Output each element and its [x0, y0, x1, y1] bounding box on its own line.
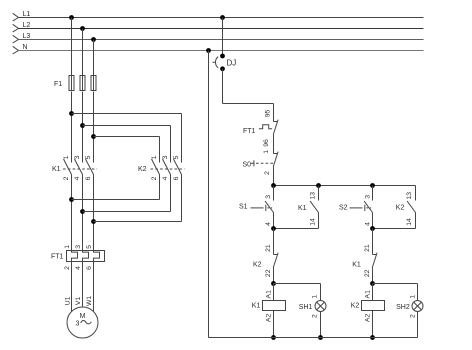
svg-text:K2: K2: [138, 166, 147, 173]
svg-text:1: 1: [263, 150, 270, 154]
node bottom SH1: [318, 335, 323, 340]
node crossover L3: [91, 134, 96, 139]
wire FT1 to motor V1: [82, 262, 84, 308]
label 4 (S1): [265, 222, 272, 226]
wire node to K1 coil: [273, 284, 275, 301]
wire K2:6 to merge W: [94, 175, 182, 222]
contactor K2 main contact 3-4: [162, 155, 171, 180]
label FT1 aux: [243, 128, 256, 135]
svg-text:1: 1: [64, 245, 71, 249]
pushbutton S0 NC: [251, 152, 278, 167]
wire K1 coil to bottom rail: [273, 311, 275, 338]
svg-text:K2: K2: [253, 262, 262, 269]
svg-text:K1: K1: [352, 262, 361, 269]
label A1 (K1 coil): [266, 290, 273, 299]
node merge S1: [271, 226, 276, 231]
svg-text:1: 1: [312, 295, 319, 299]
label 13 (K1): [310, 192, 317, 200]
svg-text:L3: L3: [23, 33, 31, 40]
node bus S1: [271, 183, 276, 188]
svg-text:A1: A1: [266, 290, 273, 299]
neutral return rail: [208, 51, 210, 338]
svg-text:N: N: [23, 44, 28, 51]
wire K1:2 down: [71, 175, 73, 251]
FT1 heater pole 3-4: [75, 245, 89, 270]
label 3 (S2): [364, 195, 371, 199]
wire K2:4 to merge V: [83, 175, 171, 212]
wire K1:4 down: [82, 175, 84, 251]
label L2: [23, 22, 31, 29]
coil K2: [362, 301, 385, 311]
wire fuse1 to K1 pole1: [71, 92, 73, 163]
power rail N: [13, 46, 424, 54]
junction L1 to K1 feeder: [69, 15, 74, 20]
svg-text:3: 3: [74, 155, 81, 159]
thermal relay FT1 box: [67, 251, 105, 262]
wire K2 coil to bottom rail: [372, 311, 374, 338]
wire S0 to bus: [273, 167, 275, 186]
wire SH2 to bottom rail: [417, 312, 419, 338]
contactor K1 main contact 3-4: [74, 155, 83, 180]
junction L2 to K1 feeder: [80, 26, 85, 31]
svg-text:5: 5: [85, 155, 92, 159]
label 22 (K1 NC): [364, 269, 371, 277]
svg-text:A2: A2: [266, 314, 273, 323]
svg-text:DJ: DJ: [227, 59, 237, 68]
svg-text:13: 13: [406, 192, 413, 200]
FT1 heater pole 5-6: [86, 245, 100, 270]
lamp SH1: [315, 301, 326, 312]
node crossover L2: [80, 123, 85, 128]
junction N to control rail: [206, 48, 211, 53]
wire node to SH1: [274, 284, 321, 301]
label K2 aux: [396, 204, 405, 211]
label L1: [23, 11, 31, 18]
svg-text:6: 6: [86, 266, 93, 270]
wire FT1 to motor U1: [71, 262, 73, 312]
fuse F1 pole 2: [80, 76, 85, 91]
label SH1: [299, 304, 313, 311]
label K1: [52, 166, 61, 173]
contactor K2 interlock NC contact: [273, 253, 278, 268]
fuse F1 pole 3: [91, 76, 96, 91]
label SH2: [396, 304, 410, 311]
power rail L1: [13, 13, 424, 21]
control bus: [274, 185, 416, 187]
label K1 aux: [298, 205, 307, 212]
label A2 (K2 coil): [365, 314, 372, 323]
label S2: [339, 204, 348, 211]
contactor K1 main contact 1-2: [63, 155, 72, 180]
svg-text:4: 4: [162, 176, 169, 180]
svg-text:FT1: FT1: [243, 128, 256, 135]
svg-text:95: 95: [264, 110, 271, 118]
power rail L3: [13, 35, 424, 43]
label A2 (K1 coil): [266, 314, 273, 323]
wire crossover L3 to K2 pole1: [94, 137, 160, 163]
contactor K2 main contact 5-6: [173, 155, 182, 180]
svg-text:S2: S2: [339, 204, 348, 211]
contactor K1 aux NO contact: [310, 186, 318, 229]
wire merge S1/K1: [274, 228, 319, 230]
wire L2 to fuse: [82, 29, 84, 76]
svg-text:4: 4: [74, 176, 81, 180]
svg-text:22: 22: [265, 269, 272, 277]
svg-text:1: 1: [151, 155, 158, 159]
svg-text:22: 22: [364, 269, 371, 277]
contactor K2 aux NO contact: [407, 186, 415, 229]
svg-text:A1: A1: [365, 290, 372, 299]
svg-text:4: 4: [75, 266, 82, 270]
node bottom K1 coil: [271, 335, 276, 340]
wire merge S2/K2: [373, 228, 416, 230]
svg-text:F1: F1: [54, 81, 62, 88]
svg-text:2: 2: [410, 314, 417, 318]
junction L1 to control drop: [220, 15, 225, 20]
label W1: [86, 296, 93, 306]
svg-text:SH2: SH2: [396, 304, 410, 311]
label K1 coil: [252, 303, 261, 310]
label 2 (SH2): [410, 314, 417, 318]
connector DJ lower terminal: [220, 66, 225, 71]
contactor K1 main contact 5-6: [85, 155, 94, 180]
svg-text:4: 4: [265, 222, 272, 226]
wire node to SH2: [373, 284, 418, 301]
svg-text:2: 2: [312, 314, 319, 318]
svg-text:6: 6: [173, 176, 180, 180]
label DJ: [227, 59, 237, 68]
svg-text:S1: S1: [239, 204, 248, 211]
label S1: [239, 204, 248, 211]
svg-text:5: 5: [173, 155, 180, 159]
label V1: [75, 297, 82, 306]
wire DJ to FT1 aux: [223, 69, 274, 122]
svg-text:2: 2: [151, 176, 158, 180]
svg-text:V1: V1: [75, 297, 82, 306]
label 1 (SH2): [410, 295, 417, 299]
wire FT1 to motor W1: [93, 262, 95, 312]
svg-text:14: 14: [310, 218, 317, 226]
node K2 coil row: [370, 281, 375, 286]
svg-text:6: 6: [85, 176, 92, 180]
svg-text:13: 13: [310, 192, 317, 200]
svg-text:K1: K1: [52, 166, 61, 173]
svg-text:M: M: [80, 313, 86, 320]
label 1 (S0): [263, 150, 270, 154]
label 14 (K1): [310, 218, 317, 226]
svg-text:S0: S0: [243, 161, 252, 168]
label 2 (S0): [264, 171, 271, 175]
node K1 coil row: [271, 281, 276, 286]
label K2 coil: [351, 303, 360, 310]
svg-text:W1: W1: [86, 296, 93, 306]
FT1 aux NC contact: [259, 120, 278, 135]
svg-text:L2: L2: [23, 22, 31, 29]
svg-text:21: 21: [364, 244, 371, 252]
svg-text:K1: K1: [298, 205, 307, 212]
label 22 (K2 NC): [265, 269, 272, 277]
wire K2:2 to merge U: [72, 175, 160, 200]
svg-text:K1: K1: [252, 303, 261, 310]
svg-text:1: 1: [410, 295, 417, 299]
wire L1 drop to DJ: [222, 18, 224, 55]
wire L3 to fuse: [93, 40, 95, 76]
wire node to K2 coil: [372, 284, 374, 301]
node merge phase V: [80, 209, 85, 214]
svg-text:2: 2: [63, 176, 70, 180]
wire S1 to K2 interlock: [273, 229, 275, 255]
lamp SH2: [412, 301, 423, 312]
svg-text:2: 2: [264, 171, 271, 175]
svg-text:U1: U1: [65, 296, 72, 305]
svg-text:3: 3: [75, 245, 82, 249]
svg-text:14: 14: [406, 218, 413, 226]
svg-text:K2: K2: [396, 204, 405, 211]
label 13 (K2): [406, 192, 413, 200]
node bus K1 aux: [316, 183, 321, 188]
wire crossover L2 to K2 pole2: [83, 126, 171, 163]
svg-text:2: 2: [64, 266, 71, 270]
svg-text:K2: K2: [351, 303, 360, 310]
connector DJ upper terminal: [220, 54, 225, 59]
svg-text:1: 1: [63, 155, 70, 159]
label 95: [264, 110, 271, 118]
wire crossover L1 to K2 pole3: [72, 114, 182, 163]
label 2 (SH1): [312, 314, 319, 318]
power rail L2: [13, 24, 424, 32]
node merge phase U: [69, 197, 74, 202]
contactor K1 interlock NC contact: [372, 253, 377, 268]
label 1 (SH1): [312, 295, 319, 299]
node bottom K2 coil: [370, 335, 375, 340]
wire K1 interlock to node: [372, 268, 374, 284]
label 21 (K2 NC): [265, 244, 272, 252]
wire S2 to K1 interlock: [372, 229, 374, 255]
wire K2 interlock to node: [273, 268, 275, 284]
motor M 3~: [67, 307, 98, 338]
svg-text:21: 21: [265, 244, 272, 252]
coil K1: [263, 301, 286, 311]
label 21 (K1 NC): [364, 244, 371, 252]
wire fuse3 to K1 pole3: [93, 92, 95, 163]
junction L3 to K1 feeder: [91, 37, 96, 42]
pushbutton S2 NO: [350, 186, 373, 229]
svg-text:3: 3: [364, 195, 371, 199]
FT1 heater pole 1-2: [64, 245, 78, 270]
label U1: [65, 296, 72, 305]
wire K1:6 down: [93, 175, 95, 251]
label K1 interlock: [352, 262, 361, 269]
svg-text:L1: L1: [23, 11, 31, 18]
label K2 interlock: [253, 262, 262, 269]
label L3: [23, 33, 31, 40]
node merge phase W: [91, 219, 96, 224]
wire FT1 aux to S0: [273, 135, 275, 154]
label N: [23, 44, 28, 51]
label K2: [138, 166, 147, 173]
node bus S2: [370, 183, 375, 188]
svg-text:96: 96: [263, 139, 270, 147]
wire fuse2 to K1 pole2: [82, 92, 84, 163]
node crossover L1: [69, 111, 74, 116]
contactor K2 main contact 1-2: [151, 155, 160, 180]
wire L1 to fuse: [71, 18, 73, 76]
fuse F1 pole 1: [69, 76, 74, 91]
bottom control rail: [209, 337, 418, 339]
K2 linkage (dashed): [151, 168, 185, 170]
label 14 (K2): [406, 218, 413, 226]
label F1: [54, 81, 62, 88]
svg-text:5: 5: [86, 245, 93, 249]
svg-text:SH1: SH1: [299, 304, 313, 311]
K1 linkage (dashed): [63, 168, 97, 170]
svg-text:3: 3: [76, 321, 80, 328]
pushbutton S1 NO: [251, 186, 274, 229]
svg-text:3: 3: [265, 195, 272, 199]
label 3 (S1): [265, 195, 272, 199]
label S0: [243, 161, 252, 168]
label A1 (K2 coil): [365, 290, 372, 299]
label FT1: [51, 254, 64, 261]
wire SH1 to bottom rail: [320, 312, 322, 338]
node merge S2: [370, 226, 375, 231]
svg-text:FT1: FT1: [51, 254, 64, 261]
svg-text:3: 3: [162, 155, 169, 159]
connector DJ socket arc: [213, 57, 219, 68]
label 96: [263, 139, 270, 147]
svg-text:A2: A2: [365, 314, 372, 323]
svg-text:4: 4: [364, 222, 371, 226]
label 4 (S2): [364, 222, 371, 226]
